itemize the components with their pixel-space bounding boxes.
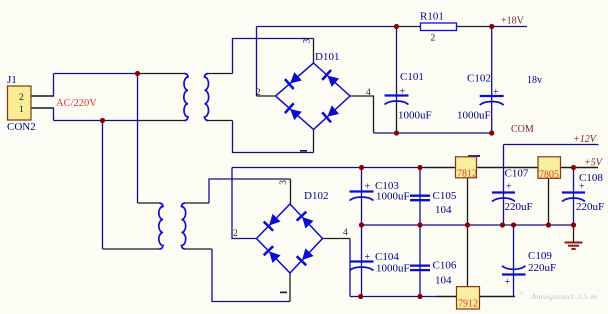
svg-text:7805: 7805 [539, 170, 559, 181]
wire D101 pin4 down to COM rail [350, 96, 374, 133]
wire vertical from node at x102 down to T2 primary bottom [102, 121, 104, 250]
wire J1 pin1 stub [31, 107, 54, 109]
capacitor C107 [492, 193, 515, 202]
svg-text:J1: J1 [7, 74, 17, 86]
svg-text:220uF: 220uF [528, 262, 556, 274]
capacitor C105 [410, 196, 430, 201]
wire 7812 ground pin down through rail B to 7912 [467, 178, 469, 287]
svg-text:2: 2 [19, 93, 24, 103]
svg-text:+: + [505, 277, 511, 288]
svg-text:+: + [493, 87, 499, 98]
capacitor C109 (inverted polarity) [502, 266, 526, 275]
svg-text:4: 4 [366, 88, 371, 98]
capacitor C103 [350, 192, 374, 201]
wire rail B common rail [362, 224, 574, 226]
wire C106 vertical [419, 225, 421, 297]
svg-text:Amwgnzutcl-3.5-m: Amwgnzutcl-3.5-m [530, 293, 597, 301]
svg-text:104: 104 [435, 204, 452, 216]
wire T1 secondary bottom to bridge D101 pin1 [208, 120, 233, 122]
svg-text:220uF: 220uF [505, 201, 533, 213]
svg-text:2: 2 [233, 229, 238, 239]
transformer T1 secondary winding [205, 74, 209, 121]
svg-text:C106: C106 [433, 260, 457, 272]
svg-text:AC/220V: AC/220V [56, 98, 97, 109]
svg-text:18v: 18v [527, 75, 542, 86]
pin 1 of D102 (rotated dash) [280, 292, 287, 294]
capacitor C108 [562, 193, 585, 202]
bridge rectifier D102 [257, 204, 323, 273]
svg-text:1000uF: 1000uF [457, 110, 491, 122]
svg-text:R101: R101 [420, 11, 444, 23]
wire R101 to +18V label with junction [457, 26, 492, 28]
wire rail A from 7805 to +5V [561, 167, 599, 169]
svg-text:1000uF: 1000uF [398, 110, 432, 122]
wire C108 vertical [573, 168, 575, 226]
wire J1 pin2 stub [31, 95, 54, 97]
svg-text:CON2: CON2 [7, 121, 36, 133]
transformer T2 secondary winding [182, 203, 186, 249]
svg-text:2: 2 [256, 88, 261, 98]
wire C101 vertical [396, 27, 398, 105]
wire ground stub [573, 225, 575, 242]
wire rail C from 7912 to C109 [480, 296, 516, 298]
svg-text:C109: C109 [528, 250, 552, 262]
svg-text:1000uF: 1000uF [376, 191, 410, 203]
transformer T1 primary winding [184, 74, 188, 121]
svg-text:<: < [519, 289, 524, 298]
wire C102 vertical [491, 27, 493, 134]
svg-text:3: 3 [279, 180, 289, 185]
svg-text:1: 1 [19, 105, 24, 115]
wire D102 pin4 down to rail C [323, 238, 351, 240]
svg-text:+: + [506, 182, 512, 193]
svg-text:C105: C105 [433, 190, 457, 202]
wire 7805 ground pin [548, 178, 550, 225]
wire C109 vertical [513, 225, 515, 297]
wire T1 secondary top to bridge D101 pin3 [208, 73, 233, 75]
wire C103 vertical [361, 168, 363, 226]
svg-text:+: + [579, 182, 585, 193]
svg-text:+18V: +18V [501, 16, 525, 27]
wire +12V rail [504, 144, 599, 146]
wire rail A +12V output rail [232, 167, 425, 169]
wire left drop from rail A to D102 pin2 [232, 168, 257, 239]
wire +12V vertical and C107 vertical [503, 145, 505, 226]
wire 7812 top stub [468, 155, 480, 157]
capacitor C106 [410, 266, 430, 271]
regulator U1 7812 [456, 157, 477, 178]
svg-text:+: + [400, 87, 406, 98]
wire T2 secondary bottom to bridge D102 pin1 [185, 248, 212, 250]
svg-text:COM: COM [511, 124, 534, 135]
ground symbol [565, 243, 583, 249]
wire vertical pin2 up to top AC rail [53, 74, 55, 97]
capacitor C101 [385, 96, 409, 105]
regulator U2 7805 [538, 157, 561, 179]
svg-text:C104: C104 [375, 251, 399, 263]
resistor R101 [421, 23, 457, 31]
svg-text:7912: 7912 [458, 299, 478, 310]
svg-text:C107: C107 [505, 168, 529, 180]
svg-text:D101: D101 [315, 51, 339, 63]
svg-text:C102: C102 [467, 73, 491, 85]
wire +18V rail left of R101 [257, 26, 397, 28]
wire C105 vertical [419, 168, 421, 226]
svg-text:+: + [365, 252, 371, 263]
wire AC bottom rail to T1 primary [54, 120, 138, 122]
svg-text:4: 4 [343, 228, 348, 238]
pin 1 of D101 (rotated dash) [300, 150, 307, 152]
svg-text:C101: C101 [400, 71, 424, 83]
wire rail C negative rail [350, 296, 437, 298]
svg-text:2: 2 [431, 34, 436, 44]
wire AC top rail to T1 primary [54, 73, 138, 75]
wire rail A from 7812 to 7805 [477, 167, 539, 169]
transformer T2 primary winding [159, 203, 163, 249]
wire T2 secondary top to bridge D102 pin3 [185, 202, 209, 204]
svg-text:3: 3 [303, 39, 313, 44]
svg-text:+12V: +12V [573, 134, 598, 145]
wire vertical from node at x137 down to T2 primary top [137, 74, 139, 204]
svg-text:+: + [365, 182, 371, 193]
capacitor C104 [350, 262, 374, 271]
svg-text:220uF: 220uF [576, 201, 604, 213]
capacitor C102 [480, 96, 504, 105]
svg-text:1000uF: 1000uF [376, 263, 410, 275]
svg-text:D102: D102 [304, 190, 328, 202]
bridge rectifier D101 [276, 63, 351, 130]
regulator U3 7912 [457, 287, 480, 309]
svg-text:+5V: +5V [584, 158, 604, 169]
svg-text:7812: 7812 [457, 169, 477, 180]
svg-text:104: 104 [435, 275, 452, 287]
connector J1 [8, 86, 32, 120]
wire vertical pin1 down to bottom AC rail [53, 108, 55, 121]
wire COM rail [374, 132, 492, 134]
wire C104 vertical [361, 225, 363, 297]
wire D101 pin2 to +18V rail [257, 95, 276, 97]
